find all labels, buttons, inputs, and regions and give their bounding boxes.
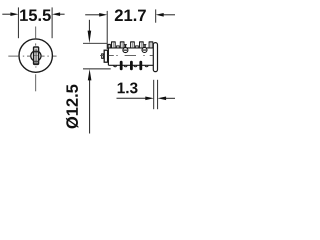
dim dia12.5 label (rotated) <box>66 85 78 129</box>
dim 21.7 extension lines <box>107 9 156 49</box>
front view: key slot <box>34 47 39 64</box>
front view: bezel circle <box>19 39 52 72</box>
key slot center tick <box>35 54 38 57</box>
key slot bottom band <box>34 63 39 65</box>
dim 1.3 arrows <box>117 97 176 99</box>
side view: cam <box>104 50 107 62</box>
dim 1.3 extension lines <box>154 80 158 109</box>
vertical centerline <box>35 27 37 92</box>
dim dia12.5 arrows <box>88 20 90 134</box>
face plate <box>153 43 157 72</box>
dim 21.7 arrows <box>85 14 175 16</box>
pin chamber circle 2 <box>142 48 147 53</box>
pin chamber circle 1 <box>123 48 128 53</box>
left top block <box>108 44 110 48</box>
dim 15.5 arrows <box>2 13 64 15</box>
side view: body top line <box>108 47 153 49</box>
top pins short <box>117 46 139 48</box>
side view: body bottom line <box>108 64 153 66</box>
dim 15.5 label <box>20 10 51 22</box>
dim 15.5 extension lines <box>18 7 52 38</box>
side view: cam nub <box>102 54 104 58</box>
dim dia12.5 extension lines <box>83 43 111 69</box>
key slot ward band upper <box>34 51 38 53</box>
key slot ward band lower <box>34 61 38 63</box>
front view: plug circle <box>31 51 41 61</box>
side view: body left edge <box>107 45 109 65</box>
bottom pins (capsules) <box>120 61 142 70</box>
dim 21.7 label <box>115 9 146 21</box>
key slot channel <box>35 49 37 63</box>
side view centerline <box>100 55 153 57</box>
dim 1.3 label <box>118 82 138 93</box>
top pins tall with caps <box>112 42 153 48</box>
horizontal centerline <box>8 55 56 57</box>
bottom spring bumps <box>114 65 149 67</box>
